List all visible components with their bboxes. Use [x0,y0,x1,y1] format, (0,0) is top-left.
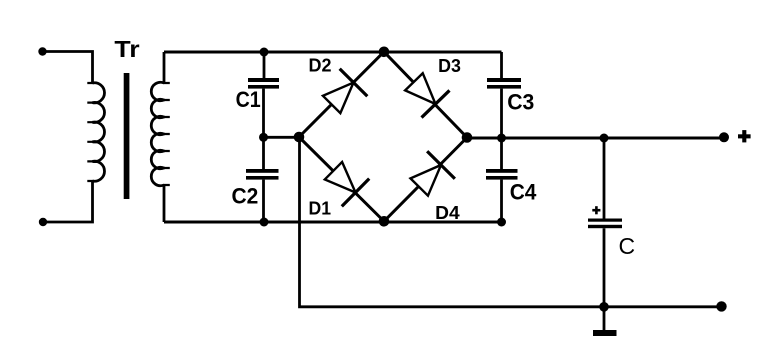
node: C1 top junction [260,48,269,57]
svg-text:C: C [619,233,636,259]
wire: bridge edge left-top [299,52,384,137]
node: ground junction on negative rail [599,302,609,312]
diode D2 [323,69,367,113]
wire: primary bottom lead [43,181,93,222]
diode D3 [405,73,449,117]
svg-text:C3: C3 [507,89,534,114]
diode D4 [410,151,454,195]
wire: smoothing cap top lead [603,138,606,219]
wire: secondary winding cusp ticks [163,83,170,185]
node: bridge right vertex [462,132,473,143]
inductor: transformer primary winding [93,83,105,181]
wire: smoothing cap bottom lead [603,228,606,307]
wire: C4 top lead [500,138,503,169]
label + output [738,130,751,142]
wire: positive output rail [467,137,724,140]
inductor: transformer secondary winding [151,82,164,185]
wire: bridge edge top-right [384,52,467,138]
wire: C3 bottom lead [500,89,503,138]
capacitor C4 [486,169,518,180]
wire: C3 top lead [500,52,503,78]
wire: C2 bottom lead [262,180,265,222]
svg-text:C2: C2 [232,184,259,209]
capacitor C3 [487,78,521,89]
terminal dot: negative output [716,301,726,311]
node: bridge top vertex [379,47,390,58]
wire: bottom AC rail [164,221,502,224]
node: smoothing cap junction on positive rail [600,134,609,143]
svg-text:D2: D2 [309,55,332,76]
wire: C4 bottom lead [500,180,503,222]
ground [593,330,617,336]
diode D1 [325,162,369,206]
svg-text:Tr: Tr [114,36,139,62]
node: C4 bottom junction [497,218,506,227]
terminal dot: positive output [719,132,729,142]
wire: midpoint to bridge left vertex [264,136,300,139]
node: bridge left vertex [294,132,305,143]
capacitor C1 [248,78,279,89]
terminal dot: primary top input [38,47,46,55]
wire: primary top lead [43,52,93,84]
svg-text:D1: D1 [309,198,332,219]
wire: secondary top lead [163,52,166,83]
svg-text:C1: C1 [236,87,261,112]
wire: bridge edge bottom-right [384,138,467,222]
svg-text:D3: D3 [438,55,461,76]
transformer core [124,73,130,199]
wire: negative return from bridge left vertex [300,137,722,307]
wire: C1 bottom lead [262,89,265,138]
capacitor C (smoothing electrolytic) [588,219,622,229]
wire: top AC rail [164,51,502,54]
capacitor C2 [246,169,279,180]
node: C3/C4 midpoint junction [497,134,506,143]
label + polarity of capacitor C [592,206,600,214]
wire: bridge edge left-bottom [299,137,384,221]
wire: ground stub [603,307,606,330]
wire: C1 top lead [263,52,266,78]
wire: secondary bottom lead [163,185,166,222]
wire: primary winding cusp ticks [87,83,93,181]
terminal dot: primary bottom input [39,218,47,226]
node: C1/C2 midpoint junction [259,133,268,142]
svg-text:D4: D4 [435,202,460,223]
node: bridge bottom vertex [379,216,390,227]
wire: C2 top lead [262,137,265,169]
svg-text:C4: C4 [510,179,537,204]
node: C2 bottom junction [260,218,269,227]
